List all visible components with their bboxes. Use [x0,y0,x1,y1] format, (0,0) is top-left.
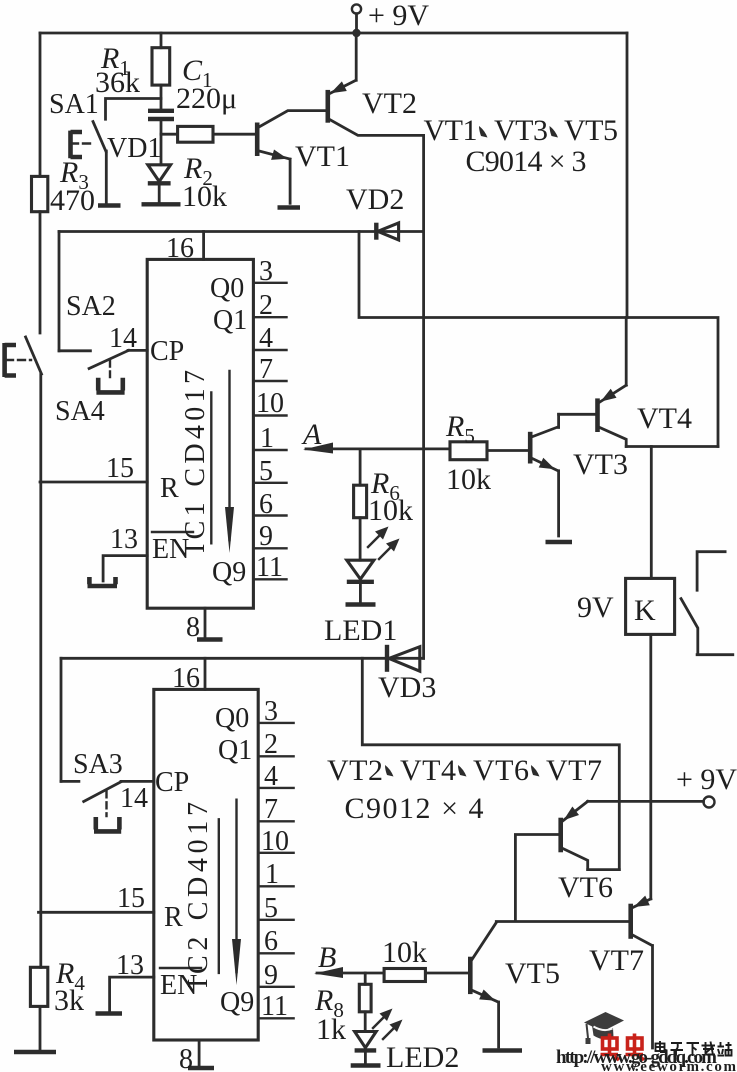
svg-text:Q9: Q9 [212,557,246,588]
svg-text:14: 14 [109,323,137,354]
diode VD2 [346,183,404,240]
svg-text:10k: 10k [182,180,227,213]
wire VT6 base [515,835,560,921]
svg-text:14: 14 [120,783,148,814]
svg-text:R: R [164,902,183,933]
svg-text:2: 2 [264,729,278,760]
wire VT2 emitter to +9V rail [355,33,358,80]
wire VT5 emitter to ground [497,1002,500,1047]
resistor R6 [354,467,413,527]
svg-text:470: 470 [50,184,95,217]
capacitor C1 [148,54,237,119]
svg-text:3k: 3k [54,984,84,1017]
wire R1 top lead [160,33,163,48]
svg-text:9: 9 [264,960,278,991]
svg-text:10k: 10k [446,463,491,496]
svg-text:11: 11 [261,991,288,1022]
svg-text:CP: CP [155,767,189,798]
diode VD3 [378,645,436,704]
wire IC1 pin8 [204,608,207,637]
wire VD3 junction down to VT6 collector [362,658,619,869]
svg-text:VT5: VT5 [564,114,618,147]
wire VD3 rail [61,657,424,660]
diode VD1 [107,133,181,204]
svg-text:9V: 9V [577,591,614,624]
LED LED2 [351,1009,460,1072]
svg-text:220μ: 220μ [176,82,237,115]
wire VD2 horizontal (pin16 rail) [59,230,424,233]
svg-text:10: 10 [261,826,289,857]
svg-text:B: B [318,941,336,974]
svg-text:LED2: LED2 [386,1041,459,1072]
transistor VT3 [530,414,628,481]
svg-text:SA4: SA4 [55,396,105,427]
wire IC1 pin15 (R) [40,481,147,484]
svg-text:10k: 10k [368,494,413,527]
wire IC2 pin16 drop [204,658,207,689]
ground pin13 IC2 [96,1011,123,1015]
wire B line to R8 [364,973,367,984]
node B arrow [314,941,384,978]
wire IC2 pin13 (EN) [110,977,154,1011]
wire 10k to VT5 base [425,972,470,975]
svg-text:13: 13 [110,524,138,555]
svg-text:R5: R5 [445,410,475,448]
switch SA4 actuator bracket [5,343,31,377]
svg-text:13: 13 [116,950,144,981]
svg-text:IC2 CD4017: IC2 CD4017 [183,802,214,988]
wire R2 to VT1 base [213,133,255,136]
wire SA2 feed (left end of pin16 rail down) [58,232,61,351]
svg-text:+ 9V: + 9V [676,763,737,796]
svg-text:VT5: VT5 [505,957,560,990]
IC1 EN label with overline [152,532,193,565]
resistor R4 [30,957,85,1017]
wire vertical VD2-collector line down to VD3 [422,232,425,659]
svg-text:Q0: Q0 [210,273,244,304]
wire left rail upper [39,33,42,176]
wire top rail [40,14,627,33]
wire IC2 pin15 (R) [39,911,154,914]
svg-text:15: 15 [117,883,145,914]
wire IC1 pin14 (CP) [128,349,147,352]
watermark graduation hat logo [584,1012,624,1044]
svg-text:36k: 36k [95,66,140,99]
switch SA2 [55,291,129,427]
resistor R8 [314,984,371,1046]
transistor VT5 [470,923,560,1003]
wire VD2 node down-right jog to VT4 row [359,232,718,447]
wire +9V to VT6 emitter [588,800,704,803]
ground bar bottom left [14,1050,56,1054]
resistor R3 [32,156,96,217]
wire C1 to VD1/R2 junction [160,121,163,165]
svg-text:VT1: VT1 [424,114,478,147]
transistor VT6 [558,801,613,904]
svg-text:4: 4 [264,761,278,792]
wire VT5-VT6-VT7 base row [496,920,629,923]
switch SA1 [49,89,161,206]
node +9V bottom terminal [676,763,737,808]
node A arrow [301,418,450,454]
wire VT3 collector to VT4 base [559,413,596,416]
svg-text:SA3: SA3 [73,749,123,780]
svg-text:3: 3 [259,256,273,287]
wire R5 to VT3 base [487,449,528,452]
svg-text:4: 4 [259,323,273,354]
watermark text dianzi xiazaizhan [656,1041,732,1056]
svg-text:2: 2 [259,290,273,321]
svg-text:VT7: VT7 [546,754,602,787]
wire IC1 pin16 drop [202,232,205,260]
wire below R4 [39,1006,42,1050]
svg-text:Q0: Q0 [215,703,249,734]
svg-text:LED1: LED1 [324,614,397,647]
node +9V top terminal [352,0,430,32]
ground VT1 [278,205,301,209]
svg-text:VT2: VT2 [327,754,383,787]
resistor R1 [95,42,170,99]
wire VT1 emitter to ground [289,159,292,203]
svg-text:11: 11 [256,552,283,583]
svg-text:VD1: VD1 [107,133,161,164]
resistor R5 [445,410,491,496]
svg-text:C9012 × 4: C9012 × 4 [345,792,484,825]
wire left rail mid [39,212,42,333]
svg-text:w w w. e e w o r m . c o m: w w w. e e w o r m . c o m [601,1059,737,1072]
IC1 right pin ladder [253,256,286,583]
IC U1 CD4017 box [147,259,253,608]
svg-text:VT2: VT2 [362,87,417,120]
wire right rail from +9V to VT4 emitter [625,33,629,385]
svg-text:VD3: VD3 [378,671,436,704]
svg-text:VT6: VT6 [473,754,529,787]
svg-text:CP: CP [150,336,184,367]
svg-text:7: 7 [259,354,273,385]
relay contact assembly [681,552,733,655]
resistor 10k at VT5 base [382,936,427,982]
ground VT3 [546,540,573,544]
wire junction to R2 [161,133,178,136]
IC U2 CD4017 box [154,689,258,1040]
svg-text:VT3: VT3 [573,448,628,481]
svg-text:5: 5 [259,456,273,487]
svg-text:K: K [634,594,656,627]
svg-text:6: 6 [264,926,278,957]
svg-text:VT7: VT7 [589,944,644,977]
wire left rail lower [39,374,42,967]
switch SA3 [61,749,123,831]
svg-text:Q1: Q1 [213,305,247,336]
svg-text:VT6: VT6 [558,871,613,904]
svg-text:3: 3 [264,696,278,727]
svg-text:1: 1 [260,423,274,454]
svg-text:C9014 × 3: C9014 × 3 [466,145,587,178]
label VT2 VT4 VT6 VT7 group [327,754,602,825]
wire R1 to C1 [160,85,163,109]
svg-text:VT1: VT1 [295,140,350,173]
svg-text:10k: 10k [382,936,427,969]
transistor VT7 [589,896,652,977]
IC2 EN label with overline [160,968,201,1001]
svg-text:1: 1 [265,859,279,890]
ground pin8 IC1 [197,637,223,641]
IC1 internal labels [180,273,247,588]
wire R8 to LED2 [364,1012,367,1032]
wire VT7 collector down [651,946,654,1049]
svg-text:VT4: VT4 [400,754,456,787]
wire A line to R6 [359,449,362,485]
IC2 internal labels [183,703,254,1018]
LED LED1 [324,527,400,648]
wire R6 to LED1 [359,518,362,561]
watermark red characters [601,1034,645,1061]
svg-text:R: R [160,473,179,504]
wire VT4 collector row [626,445,718,448]
relay K coil [577,578,675,634]
svg-text:IC1 CD4017: IC1 CD4017 [180,370,211,553]
ground pin8 IC2 [188,1066,214,1070]
transistor VT1 [257,111,350,173]
svg-text:1k: 1k [316,1013,346,1046]
svg-text:8: 8 [179,1044,193,1072]
wire IC2 pin8 [198,1040,201,1066]
svg-text:7: 7 [264,794,278,825]
svg-text:10: 10 [256,388,284,419]
svg-text:8: 8 [186,612,200,643]
svg-text:Q9: Q9 [220,987,254,1018]
svg-text:SA1: SA1 [49,89,99,120]
switch SA4 arm in left rail [26,337,42,374]
svg-text:6: 6 [259,489,273,520]
svg-text:SA2: SA2 [66,291,116,322]
svg-text:VT3: VT3 [494,114,548,147]
wire relay to VT7 emitter [649,634,652,899]
svg-text:5: 5 [264,893,278,924]
svg-text:15: 15 [106,453,134,484]
pulse symbol at pin13 [88,577,118,586]
svg-text:VT4: VT4 [637,402,692,435]
ground VT5 [483,1048,523,1052]
transistor VT4 [598,385,693,446]
transistor VT2 [328,80,424,135]
svg-text:Q1: Q1 [218,735,252,766]
IC2 right pin ladder [258,696,293,1022]
svg-text:+ 9V: + 9V [368,0,429,32]
wire VD3 left end down to SA3 [60,658,63,781]
resistor R2 [178,126,227,213]
wire VT2 collector drop [422,135,425,231]
wire VT3 emitter to ground [557,471,560,536]
junction dot [352,29,360,37]
svg-text:VD2: VD2 [346,183,404,216]
wire IC2 pin14 (CP) [121,780,154,783]
wire VT6 collector to x619 [588,868,620,871]
wire relay feed [650,447,653,579]
wire IC1 pin13 (EN) [103,556,147,581]
label VT1 VT3 VT5 group [424,114,619,178]
svg-text:9: 9 [259,521,273,552]
